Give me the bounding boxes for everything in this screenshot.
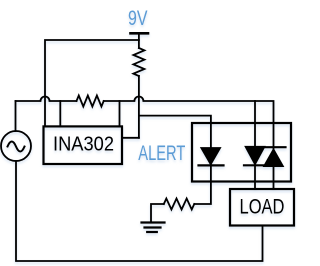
op-amp U1 INA302 [44, 126, 123, 164]
load box [230, 189, 294, 226]
diode D3 [264, 149, 284, 167]
svg-text:INA302: INA302 [53, 134, 114, 156]
wire: U1 input pin 1 [59, 101, 61, 126]
resistor R1 pull-up [133, 48, 144, 76]
wire: ALERT pin of U1 [122, 137, 139, 139]
wire: rail branch to D2 [254, 101, 256, 189]
svg-text:LOAD: LOAD [240, 195, 285, 219]
wire: R3 to ground [151, 204, 164, 222]
switch box [192, 123, 291, 182]
resistor R3 [164, 199, 194, 210]
svg-text:9V: 9V [128, 7, 148, 30]
wire: pull-up to ALERT node [138, 76, 140, 138]
wire: top feedback wire [45, 40, 139, 126]
wire: main rail left segment with hop [16, 97, 77, 102]
wire: ALERT branch to D1 [139, 116, 211, 204]
diode D1 [201, 148, 221, 165]
9V supply rail bar [131, 32, 149, 35]
diode D2 [245, 146, 265, 165]
ground [142, 223, 165, 233]
source V1 [1, 131, 31, 161]
wire: left rail to source [15, 101, 17, 131]
wire: source to bottom rail to LOAD [16, 161, 263, 261]
resistor R2 shunt [77, 96, 104, 107]
wire: 9V stem [138, 33, 140, 48]
wire: U1 input pin 2 [119, 101, 121, 126]
svg-text:ALERT: ALERT [138, 141, 185, 165]
wire: main rail right segment with hop [104, 97, 274, 190]
